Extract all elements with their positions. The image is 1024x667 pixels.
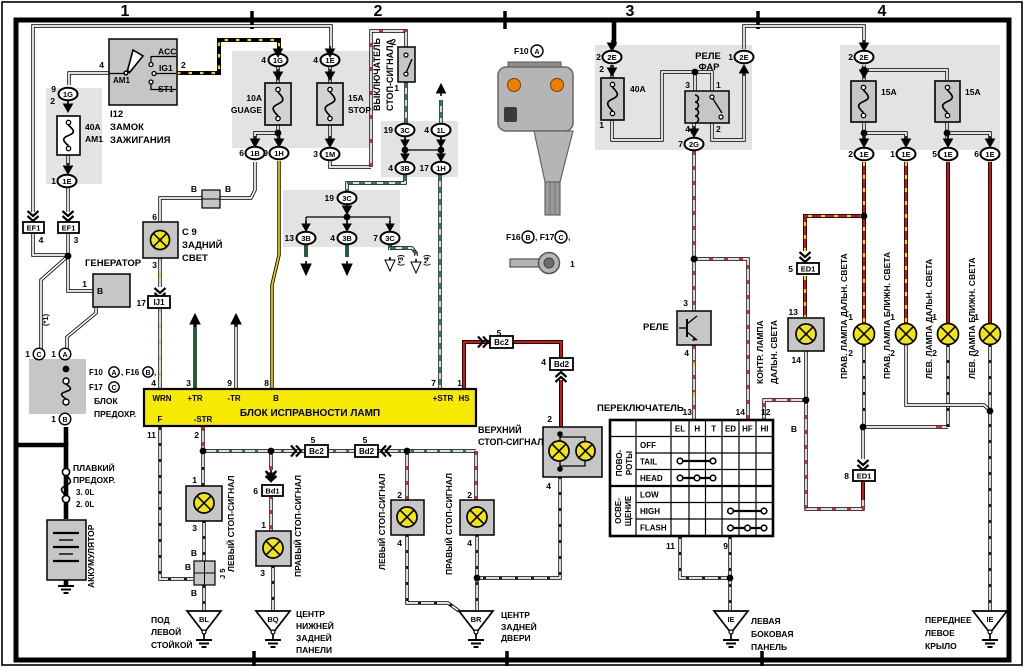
svg-text:2: 2 (181, 60, 186, 70)
svg-text:7: 7 (678, 139, 683, 149)
svg-text:ED1: ED1 (801, 265, 816, 274)
svg-text:СТОП-СИГНАЛА: СТОП-СИГНАЛА (385, 38, 395, 111)
svg-text:1E: 1E (985, 150, 994, 159)
svg-text:СВЕТ: СВЕТ (182, 253, 208, 264)
svg-text:1: 1 (848, 312, 853, 322)
svg-text:F10: F10 (514, 46, 529, 56)
svg-text:ВЫКЛЮЧАТЕЛЬ: ВЫКЛЮЧАТЕЛЬ (372, 38, 382, 111)
svg-text:4: 4 (397, 538, 402, 548)
svg-text:1: 1 (121, 3, 130, 20)
svg-text:3: 3 (683, 298, 688, 308)
svg-text:3: 3 (626, 3, 635, 20)
svg-text:-STR: -STR (194, 415, 213, 424)
svg-text:2: 2 (848, 348, 853, 358)
svg-text:3: 3 (74, 235, 79, 245)
svg-text:A: A (534, 49, 539, 56)
svg-text:13: 13 (683, 407, 693, 417)
svg-text:4: 4 (546, 481, 551, 491)
svg-text:15A: 15A (965, 87, 981, 97)
svg-text:TAIL: TAIL (640, 458, 657, 467)
svg-text:7: 7 (431, 378, 436, 388)
svg-text:1: 1 (570, 259, 575, 269)
svg-text:ПЛАВКИЙ: ПЛАВКИЙ (73, 462, 115, 473)
svg-text:ST1: ST1 (158, 84, 174, 94)
svg-text:БЛОК ИСПРАВНОСТИ ЛАМП: БЛОК ИСПРАВНОСТИ ЛАМП (240, 408, 380, 419)
svg-text:ЦЕНТР: ЦЕНТР (296, 609, 325, 619)
svg-text:1E: 1E (943, 150, 952, 159)
svg-text:17: 17 (420, 163, 430, 173)
svg-text:СТОЙКОЙ: СТОЙКОЙ (151, 639, 193, 650)
svg-text:F10: F10 (89, 368, 103, 377)
svg-text:2E: 2E (607, 53, 616, 62)
svg-text:AM1: AM1 (85, 134, 103, 144)
svg-text:2: 2 (599, 64, 604, 74)
svg-text:EF1: EF1 (62, 224, 76, 233)
svg-text:C 9: C 9 (182, 227, 197, 238)
svg-text:C: C (36, 352, 41, 359)
svg-text:2: 2 (716, 124, 721, 134)
svg-text:ЛЕВ. ЛАМПА ДАЛЬН. СВЕТА: ЛЕВ. ЛАМПА ДАЛЬН. СВЕТА (924, 259, 934, 379)
svg-text:4: 4 (541, 357, 546, 367)
svg-text:1H: 1H (436, 164, 446, 173)
svg-text:5: 5 (932, 149, 937, 159)
svg-text:5: 5 (363, 435, 368, 445)
svg-text:1: 1 (394, 83, 399, 93)
svg-text:8: 8 (264, 378, 269, 388)
svg-text:ПРЕДОХР.: ПРЕДОХР. (94, 409, 136, 419)
svg-text:ПРАВ. ЛАМПА ДАЛЬН. СВЕТА: ПРАВ. ЛАМПА ДАЛЬН. СВЕТА (839, 253, 849, 379)
svg-text:2E: 2E (859, 53, 868, 62)
svg-text:2: 2 (467, 490, 472, 500)
svg-text:Bd1: Bd1 (265, 487, 279, 496)
svg-text:9: 9 (227, 378, 232, 388)
svg-text:3: 3 (186, 378, 191, 388)
svg-text:ЛЕВОЙ: ЛЕВОЙ (151, 626, 181, 637)
svg-text:ЛЕВАЯ: ЛЕВАЯ (751, 616, 781, 626)
svg-text:1: 1 (599, 120, 604, 130)
svg-text:ПАНЕЛЬ: ПАНЕЛЬ (751, 642, 787, 652)
svg-text:10A: 10A (246, 93, 262, 103)
svg-text:GUAGE: GUAGE (231, 105, 263, 115)
svg-text:4: 4 (684, 348, 689, 358)
svg-text:1: 1 (890, 149, 895, 159)
svg-text:40A: 40A (85, 122, 101, 132)
svg-text:C: C (558, 235, 563, 242)
svg-text:B: B (97, 286, 103, 296)
svg-text:IJ1: IJ1 (153, 298, 165, 307)
svg-text:+TR: +TR (187, 394, 203, 403)
svg-text:40A: 40A (630, 84, 646, 94)
svg-text:БОКОВАЯ: БОКОВАЯ (751, 629, 793, 639)
svg-text:11: 11 (666, 541, 675, 551)
svg-text:T: T (711, 425, 716, 434)
svg-text:3B: 3B (400, 164, 410, 173)
svg-text:ПЕРЕДНЕЕ: ПЕРЕДНЕЕ (925, 615, 972, 625)
svg-text:17: 17 (137, 298, 147, 308)
svg-text:BQ: BQ (267, 615, 278, 624)
svg-text:11: 11 (147, 430, 156, 440)
svg-text:B: B (791, 424, 797, 434)
svg-text:НИЖНЕЙ: НИЖНЕЙ (296, 620, 334, 631)
svg-text:3. 0L: 3. 0L (76, 488, 94, 497)
svg-text:ED1: ED1 (857, 472, 872, 481)
svg-text:EL: EL (675, 425, 685, 434)
svg-text:13: 13 (285, 233, 295, 243)
svg-text:РЕЛЕ: РЕЛЕ (643, 322, 669, 333)
svg-text:РОТЫ: РОТЫ (625, 451, 634, 475)
svg-text:(*1): (*1) (41, 313, 50, 326)
svg-text:STOP: STOP (348, 105, 371, 115)
svg-text:АККУМУЛЯТОР: АККУМУЛЯТОР (86, 524, 96, 588)
svg-text:6: 6 (974, 149, 979, 159)
svg-text:ДВЕРИ: ДВЕРИ (501, 633, 531, 643)
svg-text:4: 4 (388, 163, 393, 173)
svg-text:, F16: , F16 (121, 368, 140, 377)
svg-text:3: 3 (685, 80, 690, 90)
svg-text:3: 3 (313, 149, 318, 159)
svg-text:BL: BL (199, 615, 209, 624)
svg-text:ЗАМОК: ЗАМОК (110, 122, 144, 133)
svg-text:4: 4 (151, 378, 156, 388)
svg-text:B: B (525, 235, 530, 242)
svg-text:9: 9 (723, 541, 728, 551)
svg-text:FLASH: FLASH (640, 524, 667, 533)
svg-text:ПРАВ. ЛАМПА БЛИЖН. СВЕТА: ПРАВ. ЛАМПА БЛИЖН. СВЕТА (882, 252, 892, 379)
svg-text:19: 19 (325, 193, 335, 203)
svg-text:IE: IE (986, 615, 993, 624)
svg-text:13: 13 (789, 307, 799, 317)
svg-text:J 5: J 5 (218, 569, 227, 579)
svg-text:EF1: EF1 (27, 224, 41, 233)
svg-text:5: 5 (788, 264, 793, 274)
svg-text:9: 9 (263, 148, 268, 158)
svg-text:1: 1 (25, 349, 30, 359)
svg-text:2: 2 (391, 37, 396, 47)
svg-text:1: 1 (716, 80, 721, 90)
svg-text:14: 14 (736, 407, 746, 417)
svg-text:1L: 1L (437, 126, 446, 135)
svg-text:1: 1 (51, 176, 56, 186)
svg-text:B: B (191, 588, 197, 598)
svg-text:F17: F17 (89, 383, 103, 392)
svg-text:ЛЕВОЕ: ЛЕВОЕ (925, 628, 955, 638)
svg-text:B: B (225, 184, 231, 194)
svg-text:1: 1 (51, 349, 56, 359)
svg-text:HF: HF (742, 425, 753, 434)
svg-text:2: 2 (194, 430, 199, 440)
svg-text:3C: 3C (400, 126, 410, 135)
svg-text:2. 0L: 2. 0L (76, 500, 94, 509)
svg-text:3C: 3C (385, 234, 395, 243)
svg-text:1: 1 (82, 279, 87, 289)
svg-text:3B: 3B (342, 234, 352, 243)
svg-text:4: 4 (99, 60, 104, 70)
svg-text:ПРЕДОХР.: ПРЕДОХР. (73, 475, 115, 485)
svg-text:1E: 1E (859, 150, 868, 159)
svg-text:B: B (273, 394, 279, 403)
svg-text:1B: 1B (250, 149, 260, 158)
svg-text:HI: HI (761, 425, 769, 434)
svg-text:БЛОК: БЛОК (94, 396, 118, 406)
svg-text:ЩЕНИЕ: ЩЕНИЕ (624, 495, 633, 526)
svg-text:A: A (111, 370, 116, 377)
svg-text:ВЕРХНИЙ: ВЕРХНИЙ (478, 424, 522, 435)
svg-text:1: 1 (728, 52, 733, 62)
svg-text:6: 6 (253, 486, 258, 496)
svg-text:ПОВО-: ПОВО- (615, 449, 624, 476)
svg-text:2: 2 (547, 414, 552, 424)
svg-text:ПАНЕЛИ: ПАНЕЛИ (296, 645, 332, 655)
svg-text:,: , (568, 232, 570, 242)
svg-text:2E: 2E (739, 53, 748, 62)
svg-text:B: B (62, 417, 67, 424)
svg-text:2: 2 (848, 149, 853, 159)
svg-text:Bd2: Bd2 (359, 447, 375, 456)
svg-text:C: C (111, 385, 116, 392)
svg-text:19: 19 (384, 125, 394, 135)
svg-text:1H: 1H (274, 149, 284, 158)
svg-text:1: 1 (261, 520, 266, 530)
svg-text:2: 2 (397, 490, 402, 500)
svg-text:IG1: IG1 (159, 63, 173, 73)
svg-text:4: 4 (261, 55, 266, 65)
svg-text:+STR: +STR (433, 394, 454, 403)
svg-text:ПРАВЫЙ СТОП-СИГНАЛ: ПРАВЫЙ СТОП-СИГНАЛ (443, 473, 454, 575)
svg-text:ЛЕВ. ЛАМПА БЛИЖН. СВЕТА: ЛЕВ. ЛАМПА БЛИЖН. СВЕТА (967, 257, 977, 379)
svg-text:Bc2: Bc2 (494, 338, 509, 347)
svg-text:1G: 1G (63, 90, 73, 99)
svg-text:14: 14 (792, 355, 802, 365)
svg-text:3C: 3C (342, 194, 352, 203)
svg-text:Bc2: Bc2 (309, 447, 324, 456)
svg-text:BR: BR (471, 615, 482, 624)
svg-text:ПЕРЕКЛЮЧАТЕЛЬ: ПЕРЕКЛЮЧАТЕЛЬ (597, 403, 684, 414)
svg-text:КОНТР. ЛАМПА: КОНТР. ЛАМПА (755, 320, 765, 384)
svg-text:ДАЛЬН. СВЕТА: ДАЛЬН. СВЕТА (769, 320, 779, 384)
svg-text:7: 7 (373, 233, 378, 243)
svg-text:3: 3 (260, 568, 265, 578)
svg-text:4: 4 (467, 538, 472, 548)
svg-text:3: 3 (152, 260, 157, 270)
svg-text:F: F (158, 415, 163, 424)
svg-text:LOW: LOW (640, 491, 659, 500)
svg-text:12: 12 (761, 407, 771, 417)
svg-text:ГЕНЕРАТОР: ГЕНЕРАТОР (85, 258, 142, 269)
svg-text:3: 3 (192, 523, 197, 533)
svg-text:H: H (694, 425, 700, 434)
svg-text:2: 2 (374, 3, 383, 20)
svg-text:B: B (185, 562, 191, 572)
svg-text:СТОП-СИГНАЛ: СТОП-СИГНАЛ (478, 437, 544, 447)
svg-text:15A: 15A (348, 93, 364, 103)
svg-text:ЛЕВЫЙ СТОП-СИГНАЛ: ЛЕВЫЙ СТОП-СИГНАЛ (376, 474, 387, 570)
svg-text:ПРАВЫЙ СТОП-СИГНАЛ: ПРАВЫЙ СТОП-СИГНАЛ (292, 475, 303, 577)
svg-text:B: B (145, 370, 150, 377)
svg-text:Bd2: Bd2 (554, 360, 570, 369)
svg-text:ЗАДНИЙ: ЗАДНИЙ (182, 239, 223, 251)
svg-text:5: 5 (311, 435, 316, 445)
svg-text:2: 2 (848, 52, 853, 62)
svg-text:3B: 3B (301, 234, 311, 243)
svg-text:ЛЕВЫЙ СТОП-СИГНАЛ: ЛЕВЫЙ СТОП-СИГНАЛ (225, 476, 236, 572)
svg-text:HIGH: HIGH (640, 507, 660, 516)
svg-text:AM1: AM1 (113, 76, 130, 85)
svg-text:8: 8 (844, 471, 849, 481)
svg-text:B: B (191, 548, 197, 558)
svg-text:I12: I12 (110, 109, 123, 120)
svg-text:15A: 15A (881, 87, 897, 97)
svg-text:1: 1 (192, 475, 197, 485)
svg-text:B: B (191, 184, 197, 194)
svg-text:1: 1 (51, 414, 56, 424)
svg-text:F16: F16 (506, 232, 521, 242)
svg-text:IE: IE (727, 615, 734, 624)
svg-text:OFF: OFF (640, 441, 656, 450)
svg-text:(*4): (*4) (424, 255, 431, 266)
svg-text:ACC: ACC (158, 47, 176, 57)
svg-text:КРЫЛО: КРЫЛО (925, 641, 957, 651)
svg-text:4: 4 (878, 3, 887, 20)
svg-text:WRN: WRN (152, 394, 171, 403)
svg-text:РЕЛЕ: РЕЛЕ (695, 51, 721, 62)
svg-text:1M: 1M (325, 150, 335, 159)
svg-text:1: 1 (457, 378, 462, 388)
svg-text:ПОД: ПОД (151, 615, 170, 625)
svg-text:4: 4 (424, 125, 429, 135)
svg-text:HS: HS (458, 394, 470, 403)
svg-text:ЗАЖИГАНИЯ: ЗАЖИГАНИЯ (110, 135, 171, 146)
svg-text:(*3): (*3) (398, 255, 405, 266)
svg-text:4: 4 (330, 233, 335, 243)
svg-text:4: 4 (313, 55, 318, 65)
svg-text:1E: 1E (901, 150, 910, 159)
svg-text:2: 2 (50, 96, 55, 106)
svg-text:,: , (154, 368, 156, 377)
svg-text:, F17: , F17 (535, 232, 555, 242)
svg-text:-TR: -TR (227, 394, 241, 403)
svg-text:1E: 1E (62, 177, 71, 186)
svg-text:2G: 2G (689, 140, 699, 149)
svg-text:ОСВЕ-: ОСВЕ- (614, 498, 623, 524)
svg-text:9: 9 (51, 84, 56, 94)
svg-text:ЦЕНТР: ЦЕНТР (501, 610, 530, 620)
svg-text:ЗАДНЕЙ: ЗАДНЕЙ (501, 621, 537, 632)
svg-text:2: 2 (596, 52, 601, 62)
svg-text:HEAD: HEAD (640, 474, 663, 483)
svg-text:ЗАДНЕЙ: ЗАДНЕЙ (296, 632, 332, 643)
svg-text:6: 6 (239, 148, 244, 158)
svg-text:ФАР: ФАР (698, 62, 720, 73)
svg-text:4: 4 (39, 235, 44, 245)
svg-text:ED: ED (725, 425, 736, 434)
svg-text:6: 6 (152, 212, 157, 222)
svg-text:A: A (62, 352, 67, 359)
